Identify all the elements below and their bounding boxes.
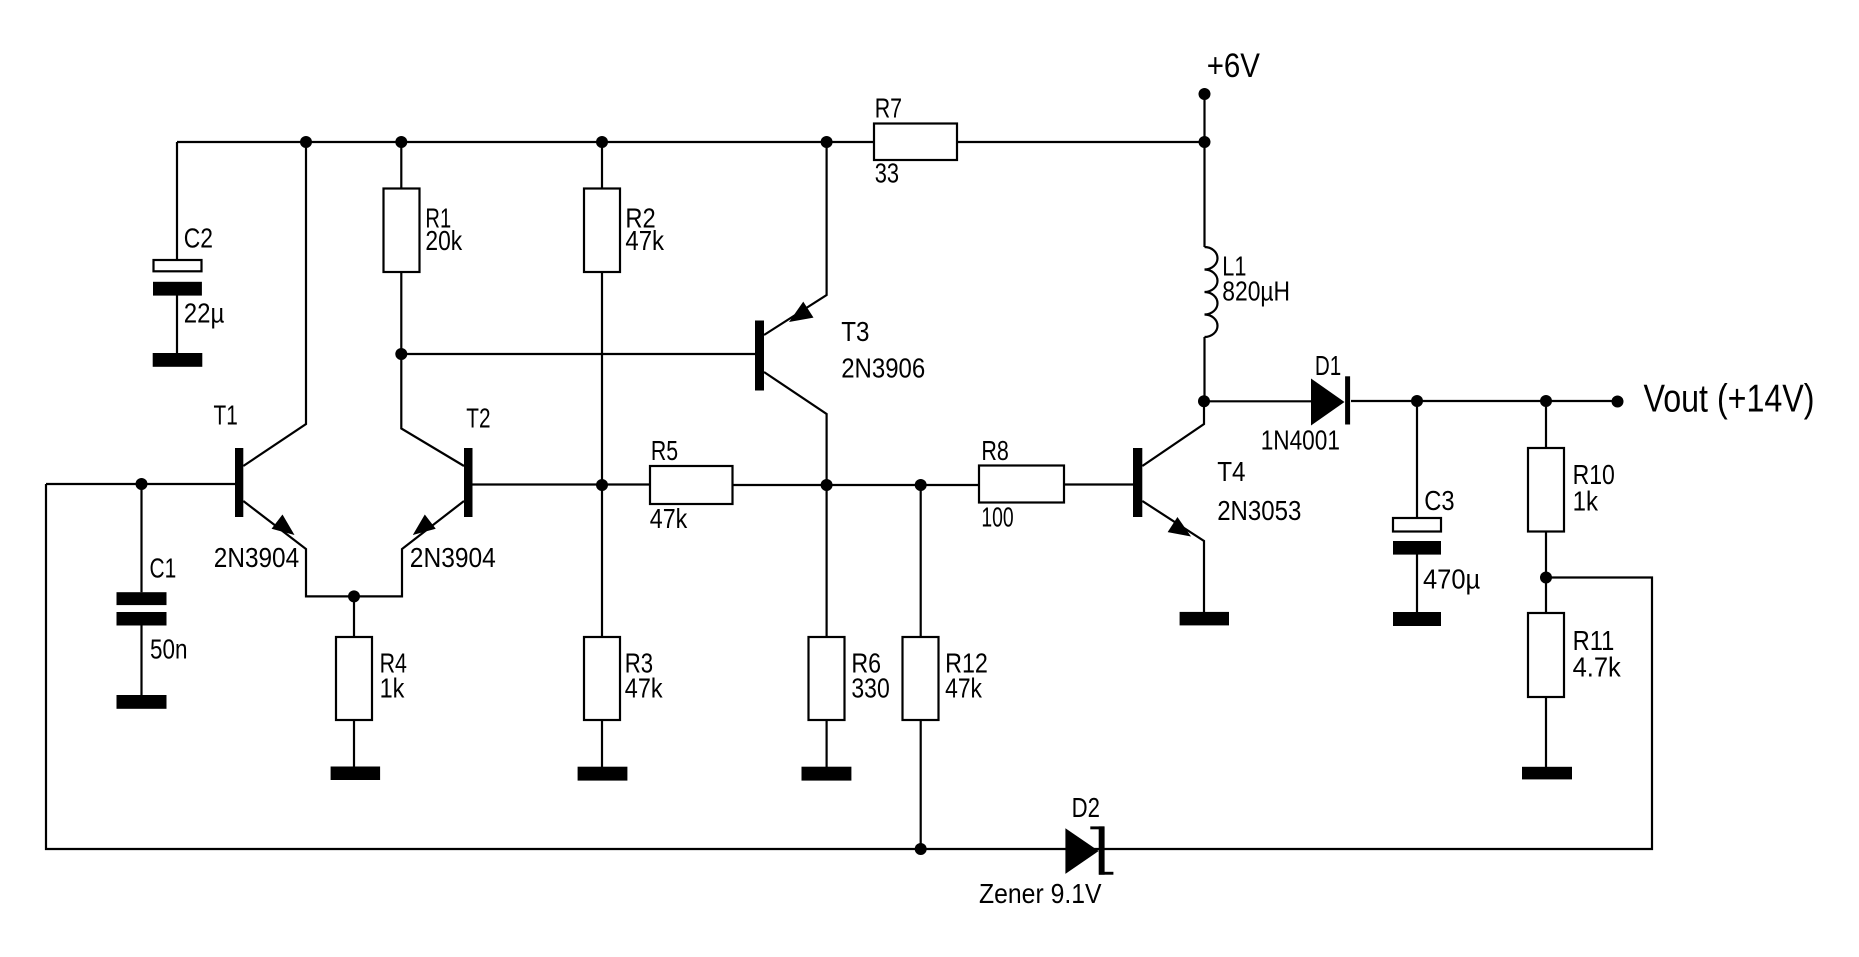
svg-text:Vout (+14V): Vout (+14V) (1644, 377, 1815, 421)
svg-text:47k: 47k (945, 674, 982, 705)
svg-text:2N3053: 2N3053 (1217, 494, 1301, 526)
svg-text:C1: C1 (150, 554, 177, 585)
svg-text:C3: C3 (1424, 486, 1454, 516)
svg-text:20k: 20k (425, 226, 462, 257)
svg-text:820µH: 820µH (1222, 276, 1290, 307)
svg-text:470µ: 470µ (1423, 563, 1480, 594)
svg-text:4.7k: 4.7k (1573, 652, 1622, 683)
svg-text:47k: 47k (625, 674, 663, 704)
svg-text:33: 33 (875, 158, 899, 189)
svg-text:100: 100 (981, 502, 1013, 533)
svg-text:47k: 47k (625, 224, 665, 256)
svg-text:22µ: 22µ (184, 297, 225, 329)
svg-text:Zener 9.1V: Zener 9.1V (979, 877, 1102, 909)
svg-text:1k: 1k (1573, 485, 1599, 517)
svg-text:2N3904: 2N3904 (214, 541, 299, 573)
svg-text:2N3906: 2N3906 (841, 352, 925, 384)
svg-text:+6V: +6V (1207, 46, 1261, 85)
svg-text:T4: T4 (1217, 456, 1245, 488)
svg-text:330: 330 (851, 674, 889, 705)
svg-text:1k: 1k (380, 674, 405, 704)
svg-text:R7: R7 (875, 93, 902, 124)
svg-text:T2: T2 (466, 404, 490, 435)
svg-text:T3: T3 (841, 315, 869, 347)
svg-text:2N3904: 2N3904 (410, 541, 496, 573)
svg-text:D1: D1 (1315, 351, 1341, 382)
svg-text:1N4001: 1N4001 (1261, 425, 1340, 456)
svg-text:47k: 47k (650, 504, 688, 534)
svg-text:D2: D2 (1072, 793, 1100, 824)
svg-text:R5: R5 (651, 435, 678, 467)
svg-text:T1: T1 (214, 401, 238, 432)
svg-text:R8: R8 (981, 435, 1008, 466)
svg-text:50n: 50n (150, 634, 187, 665)
svg-text:C2: C2 (184, 224, 213, 255)
